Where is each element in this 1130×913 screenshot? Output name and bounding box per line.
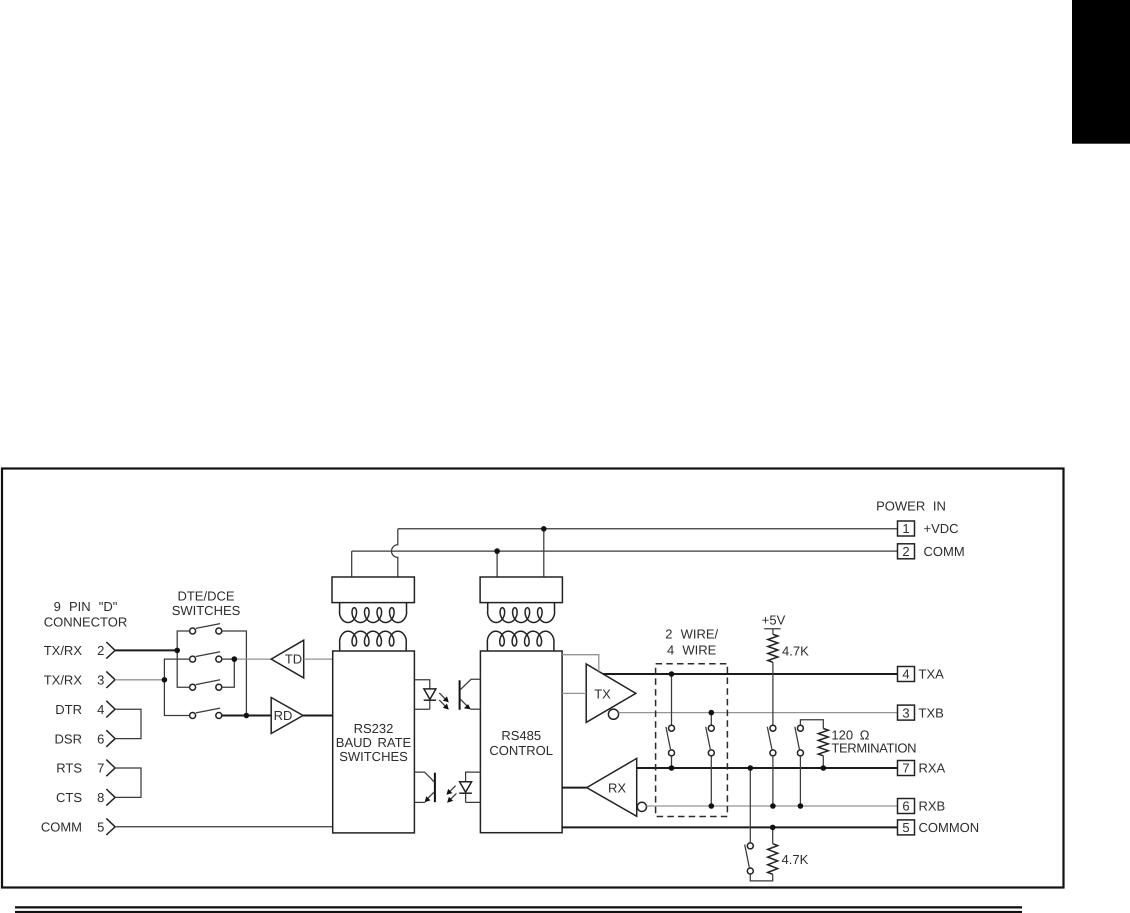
wire vertical pin3 net (S2-S4 left) xyxy=(164,659,189,715)
svg-text:4: 4 xyxy=(97,702,104,717)
DB9 pin 5 COMM xyxy=(41,818,115,835)
wire R3 to COMMON xyxy=(772,827,774,843)
wire SW4 top to R2 xyxy=(800,720,823,729)
DB9 pin 6 DSR xyxy=(55,730,116,747)
wire RX output to RS485 xyxy=(562,787,587,789)
DB9 pin 2 TX/RX xyxy=(44,642,115,659)
wire TD output to RS232 xyxy=(304,658,333,660)
wire T2 left lead xyxy=(496,551,498,577)
DB9 pin 3 TX/RX xyxy=(44,671,115,688)
wire COMM pin5 to RS232 block xyxy=(115,826,333,828)
svg-text:6: 6 xyxy=(97,731,104,746)
svg-text:5: 5 xyxy=(902,820,909,835)
wire TXA line xyxy=(603,673,897,675)
bubble TX inverted output xyxy=(608,709,618,719)
wire SW5 bottom loop to R3 xyxy=(750,874,772,881)
label 2 WIRE / 4 WIRE xyxy=(665,626,718,657)
junction TXB/SW2 xyxy=(709,710,715,716)
optocoupler U1 LED D1 xyxy=(424,689,436,700)
wire SW2 to RXB xyxy=(710,756,712,806)
svg-text:TXA: TXA xyxy=(919,667,945,682)
junction TD node xyxy=(232,656,238,662)
svg-text:5: 5 xyxy=(97,820,104,835)
terminal 1 +VDC xyxy=(898,521,959,536)
svg-text:+5V: +5V xyxy=(762,613,786,628)
wire pin2 to junction xyxy=(115,649,177,651)
svg-text:TD: TD xyxy=(285,652,302,667)
wire R2 to RXA xyxy=(822,756,824,768)
svg-text:9 PIN "D": 9 PIN "D" xyxy=(54,599,118,614)
wire COMM bus xyxy=(352,550,898,552)
wire pin3 to junction xyxy=(115,679,164,681)
junction RXA/SW1 xyxy=(669,765,675,771)
svg-text:POWER IN: POWER IN xyxy=(876,498,946,513)
resistor R2 120 ohm termination xyxy=(818,729,828,756)
svg-text:CONTROL: CONTROL xyxy=(489,743,553,758)
wire S2 right to TD / S3 strap xyxy=(222,659,235,687)
wire S4 right to RD junction xyxy=(222,715,271,717)
junction pin2 xyxy=(174,648,180,654)
wire RTS-CTS strap xyxy=(115,768,141,797)
junction SW3/RXB xyxy=(770,803,776,809)
svg-text:TERMINATION: TERMINATION xyxy=(831,741,916,756)
terminal 4 TXA xyxy=(898,667,945,682)
svg-text:TXB: TXB xyxy=(919,705,944,720)
svg-text:TX: TX xyxy=(594,686,611,701)
svg-text:BAUD RATE: BAUD RATE xyxy=(336,735,412,750)
wire RXA line xyxy=(637,767,898,769)
svg-text:4.7K: 4.7K xyxy=(782,644,809,659)
wire T1 left lead xyxy=(351,551,353,577)
DB9 pin 7 RTS xyxy=(56,760,115,777)
optocoupler U1 LED bracket xyxy=(414,680,429,710)
junction pin3 xyxy=(162,677,168,683)
block RS232 BAUD RATE SWITCHES xyxy=(333,651,415,833)
wire +VDC bus xyxy=(398,528,898,530)
junction RXA/SW5 xyxy=(748,765,754,771)
junction SW4/RXB xyxy=(798,803,804,809)
power +5V rail bar xyxy=(764,628,780,630)
wire TX enable from RS485 xyxy=(562,655,599,672)
junction T2 on +VDC bus xyxy=(541,526,547,532)
svg-text:TX/RX: TX/RX xyxy=(44,673,83,688)
switch S3 (DTE/DCE) xyxy=(190,680,222,690)
svg-text:CONNECTOR: CONNECTOR xyxy=(44,615,128,630)
transformer T2 lower winding xyxy=(487,631,554,651)
wire RXA to switch SW5 xyxy=(749,768,751,843)
svg-text:8: 8 xyxy=(97,790,104,805)
svg-text:COMM: COMM xyxy=(41,820,82,835)
junction RXB/SW2 xyxy=(709,803,715,809)
svg-text:2: 2 xyxy=(97,643,104,658)
wire T1 right lead with hop xyxy=(391,529,397,577)
svg-text:RXB: RXB xyxy=(919,799,946,814)
block RS485 CONTROL xyxy=(480,651,562,833)
svg-text:DTE/DCE: DTE/DCE xyxy=(177,589,234,604)
wire R1 to switch SW3 xyxy=(772,662,774,725)
svg-text:4: 4 xyxy=(902,667,909,682)
wire TXB to switch SW2 xyxy=(710,713,712,726)
svg-text:2: 2 xyxy=(902,544,909,559)
terminal 6 RXB xyxy=(898,799,946,814)
optocoupler U1 light arrows xyxy=(439,693,449,710)
label 9 PIN "D" CONNECTOR xyxy=(44,599,128,630)
resistor R3 4.7K pull-down xyxy=(768,844,778,875)
wire vertical pin2 net (S1-S3 left) xyxy=(177,631,189,687)
svg-text:CTS: CTS xyxy=(56,790,82,805)
svg-text:COMM: COMM xyxy=(924,544,965,559)
junction R3/COMMON xyxy=(770,825,776,831)
DB9 pin 4 DTR xyxy=(55,701,115,718)
junction RD node xyxy=(244,713,250,719)
svg-text:4.7K: 4.7K xyxy=(782,852,809,867)
wire DTR-DSR strap xyxy=(115,709,141,738)
svg-text:7: 7 xyxy=(902,761,909,776)
buffer RX xyxy=(587,758,637,816)
buffer RD xyxy=(271,698,303,734)
svg-text:2 WIRE/: 2 WIRE/ xyxy=(665,626,718,641)
wire TXB line xyxy=(619,712,898,714)
svg-text:7: 7 xyxy=(97,761,104,776)
switch SW1 (2/4-wire A) xyxy=(666,725,675,756)
svg-text:RX: RX xyxy=(608,781,626,796)
svg-text:3: 3 xyxy=(902,705,909,720)
svg-text:RXA: RXA xyxy=(919,761,946,776)
svg-text:1: 1 xyxy=(902,521,909,536)
terminal 3 TXB xyxy=(898,705,944,720)
optocoupler U2 phototransistor Q2 xyxy=(414,772,435,802)
svg-text:SWITCHES: SWITCHES xyxy=(339,749,408,764)
switch SW2 (2/4-wire B) xyxy=(706,725,715,756)
svg-text:+VDC: +VDC xyxy=(924,521,959,536)
switch S2 (DTE/DCE) xyxy=(190,652,222,662)
terminal 5 COMMON xyxy=(898,820,980,835)
resistor R1 4.7K pull-up xyxy=(768,634,778,662)
wire SW1 to RXA xyxy=(671,756,673,768)
svg-text:RS485: RS485 xyxy=(501,728,541,743)
junction R2/RXA xyxy=(821,765,827,771)
wire TX input from RS485 xyxy=(562,692,586,694)
wire COMMON line xyxy=(562,826,897,828)
optocoupler U2 LED D2 xyxy=(459,782,472,794)
svg-text:DTR: DTR xyxy=(55,702,82,717)
svg-text:RTS: RTS xyxy=(56,761,82,776)
wire TD input xyxy=(234,658,271,660)
svg-text:6: 6 xyxy=(902,799,909,814)
junction T2 on COMM bus xyxy=(494,548,500,554)
switch S4 (DTE/DCE) xyxy=(190,708,222,718)
bubble RX inverted input xyxy=(637,802,646,811)
wire S1 right to RD net vertical xyxy=(222,631,247,716)
optocoupler U2 LED bracket xyxy=(466,772,481,802)
transformer T1 lower winding xyxy=(340,631,407,651)
wire RD output to RS232 xyxy=(303,715,333,717)
wire +5V to R1 xyxy=(772,629,774,635)
buffer TD xyxy=(271,640,304,678)
svg-text:RD: RD xyxy=(274,708,293,723)
wire TXA to switch SW1 xyxy=(671,674,673,725)
svg-text:4 WIRE: 4 WIRE xyxy=(667,642,717,657)
label 120 ohm TERMINATION xyxy=(831,728,916,756)
footer double rule xyxy=(15,906,1022,913)
figure border frame xyxy=(2,469,1064,888)
dashed selector box xyxy=(656,664,728,817)
switch S1 (DTE/DCE) xyxy=(190,624,222,634)
switch SW3 (pull-up enable) xyxy=(767,725,776,756)
svg-text:COMMON: COMMON xyxy=(919,820,980,835)
junction TXA/SW1 xyxy=(669,671,675,677)
svg-text:RS232: RS232 xyxy=(354,721,394,736)
transformer T1 upper winding xyxy=(339,603,406,623)
black corner tab xyxy=(1072,0,1130,144)
wire T2 right lead xyxy=(543,529,545,577)
transformer T2 upper winding xyxy=(488,603,555,623)
svg-text:TX/RX: TX/RX xyxy=(44,643,83,658)
svg-text:3: 3 xyxy=(97,673,104,688)
optocoupler U1 phototransistor Q1 xyxy=(460,679,481,710)
svg-text:SWITCHES: SWITCHES xyxy=(172,603,241,618)
switch SW4 (termination enable) xyxy=(795,725,804,756)
transformer T2 primary box xyxy=(480,577,562,603)
terminal 7 RXA xyxy=(898,761,946,776)
svg-text:DSR: DSR xyxy=(55,731,82,746)
optocoupler U2 light arrows xyxy=(446,786,456,803)
wire SW4 bottom to RXB xyxy=(799,756,801,806)
wire RXB line xyxy=(647,805,898,807)
label DTE/DCE SWITCHES xyxy=(172,589,241,619)
transformer T1 primary box xyxy=(332,577,414,603)
terminal 2 COMM xyxy=(898,544,965,559)
buffer TX xyxy=(586,664,636,722)
switch SW5 (pull-down enable) xyxy=(745,843,754,874)
DB9 pin 8 CTS xyxy=(56,789,115,806)
wire SW3 to RXB xyxy=(772,756,774,806)
